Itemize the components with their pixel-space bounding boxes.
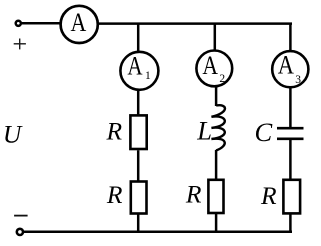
wire branch2 to bottom rail [215, 213, 218, 232]
wire branch3 rail to A3 [289, 23, 292, 51]
wire terminal to ammeter A [22, 22, 62, 25]
svg-text:2: 2 [219, 73, 225, 85]
inductor L coil [211, 105, 225, 150]
svg-text:A: A [127, 52, 142, 81]
wire branch1 to bottom rail [137, 214, 140, 232]
resistor R (branch2) [208, 180, 223, 213]
svg-text:R: R [106, 180, 123, 209]
wire between resistors branch1 [137, 150, 140, 181]
bottom rail [24, 230, 293, 233]
wire inductor to resistor branch2 [215, 150, 218, 179]
wire capacitor to resistor branch3 [289, 139, 292, 179]
wire A2 to inductor [215, 86, 218, 106]
wire A3 to capacitor [289, 87, 292, 128]
capacitor C bottom plate [277, 138, 304, 141]
ammeter A [61, 6, 98, 43]
svg-text:R: R [260, 181, 277, 210]
wire top rail A to branch 3 [98, 22, 292, 25]
minus label [14, 215, 28, 217]
resistor R (branch3) [283, 180, 300, 214]
terminal bottom-left (−) [17, 229, 23, 235]
resistor R (branch1 lower) [131, 182, 147, 214]
capacitor C top plate [277, 127, 304, 130]
svg-text:A: A [278, 50, 294, 79]
terminal top-left (+) [16, 21, 21, 26]
ammeter A3 [272, 51, 308, 87]
plus label [14, 39, 26, 50]
wire branch1 rail to A1 [137, 23, 140, 52]
svg-text:1: 1 [145, 70, 151, 82]
resistor R (branch1 upper) [130, 115, 146, 149]
svg-text:A: A [71, 8, 87, 37]
svg-text:R: R [106, 116, 123, 145]
wire branch2 rail to A2 [214, 23, 217, 51]
svg-text:C: C [255, 117, 273, 147]
svg-text:R: R [185, 180, 202, 209]
svg-text:A: A [202, 51, 218, 80]
svg-text:U: U [3, 120, 23, 149]
ammeter A2 [196, 51, 232, 87]
svg-text:3: 3 [295, 74, 301, 86]
svg-text:L: L [196, 116, 212, 146]
wire branch3 to bottom rail [289, 213, 292, 232]
wire A1 to resistor R1a [137, 90, 140, 116]
ammeter A1 [120, 52, 158, 90]
